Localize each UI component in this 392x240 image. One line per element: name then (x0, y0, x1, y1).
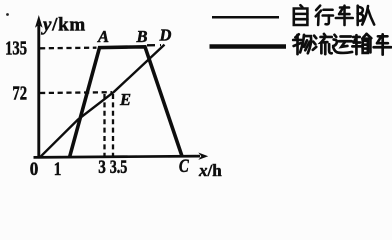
svg-text:1: 1 (54, 158, 62, 179)
char 物 (293, 34, 311, 54)
svg-text:135: 135 (5, 37, 27, 58)
dashed 72 level line (40, 91, 112, 94)
svg-text:3: 3 (98, 156, 106, 177)
svg-text:72: 72 (12, 83, 27, 104)
char 车 (336, 6, 353, 25)
char 车 (374, 34, 392, 54)
x-axis arrowhead (198, 153, 208, 160)
char 自 (294, 5, 308, 25)
legend thick line (210, 44, 287, 49)
svg-text:B: B (135, 27, 147, 46)
svg-text:0: 0 (30, 158, 39, 179)
legend text 物流运输车 (drawn glyphs) (293, 34, 391, 55)
char 队 (358, 6, 374, 25)
svg-text:A: A (97, 27, 109, 46)
svg-text:x/h: x/h (198, 161, 222, 180)
svg-text:C: C (179, 155, 189, 176)
speck top-left (6, 13, 9, 16)
y-axis arrowhead (35, 15, 43, 28)
legend thin line (212, 16, 279, 19)
char 输 (352, 34, 371, 54)
legend text 自行车队 (drawn glyphs) (294, 5, 374, 25)
vertical dashed at x=3 (103, 94, 105, 156)
char 流 (313, 34, 332, 54)
vertical dashed at x=3.5 (112, 94, 114, 156)
svg-text:y/km: y/km (41, 15, 86, 36)
char 运 (333, 35, 352, 53)
y-axis (37, 25, 40, 158)
thin bicycle polyline (40, 45, 165, 158)
thick truck polyline (70, 47, 183, 158)
dashed 135 level line (40, 47, 97, 50)
svg-text:E: E (119, 90, 131, 109)
char 行 (316, 6, 333, 25)
svg-text:D: D (159, 26, 172, 45)
dashed B-D segment (147, 44, 161, 47)
svg-text:3.5: 3.5 (110, 156, 128, 178)
x-axis (34, 156, 201, 157)
